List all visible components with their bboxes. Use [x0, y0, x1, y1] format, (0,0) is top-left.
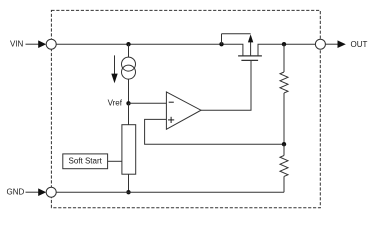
op-amp plus sign: [168, 119, 174, 121]
pin OUT terminal: [315, 39, 325, 49]
resistor R1: [280, 72, 288, 93]
wire GND lead: [26, 191, 40, 193]
wire Soft Start to reference resistor: [108, 160, 122, 162]
wire Vref to inverting input: [129, 102, 167, 104]
node reference-ground junction: [126, 190, 130, 194]
op-amp minus sign: [169, 101, 174, 103]
node Vref: [126, 101, 130, 105]
wire VIN lead: [26, 43, 40, 45]
svg-text:OUT: OUT: [351, 40, 368, 49]
wire feedback node to R2: [283, 144, 285, 155]
wire body-tie loop: [221, 34, 223, 45]
transistor Q1 body arrow: [250, 42, 252, 56]
node source-branch junction: [126, 42, 130, 46]
wire bias branch from VIN rail: [128, 44, 130, 57]
svg-text:GND: GND: [7, 187, 25, 196]
block Soft Start: [63, 154, 108, 169]
arrow into VIN pin: [38, 40, 46, 48]
wire R2 to ground rail: [283, 176, 285, 192]
resistor R3 (reference leg, box style): [122, 125, 136, 175]
wire Vref node to reference resistor: [128, 103, 130, 124]
wire R1 to feedback node: [283, 93, 285, 144]
arrow current direction: [114, 55, 116, 75]
wire ground rail: [56, 191, 284, 193]
arrow into GND pin: [38, 188, 46, 196]
pin GND terminal: [46, 187, 56, 197]
node divider-top junction: [282, 42, 286, 46]
node body-tie junction: [219, 42, 223, 46]
arrow out of OUT pin: [338, 40, 346, 48]
node feedback junction: [282, 142, 286, 146]
resistor R2: [280, 156, 288, 177]
svg-text:VIN: VIN: [10, 40, 24, 49]
op-amp U1 error amplifier: [166, 92, 201, 129]
wire pass transistor drain to OUT rail: [258, 44, 315, 56]
wire feedback to non-inverting input: [145, 119, 284, 144]
wire VIN rail to pass transistor source: [56, 44, 243, 56]
transistor Q1 gate bar: [241, 59, 258, 61]
IC boundary dashed box: [51, 10, 320, 207]
transistor Q1 channel bar: [238, 55, 262, 57]
wire OUT rail to divider: [283, 44, 285, 72]
svg-text:Soft Start: Soft Start: [69, 157, 103, 166]
current source I1: [122, 57, 136, 71]
pin VIN terminal: [46, 39, 56, 49]
wire gate lead to error amp output: [201, 60, 251, 110]
wire reference resistor to ground rail: [128, 174, 130, 192]
svg-text:Vref: Vref: [108, 98, 123, 107]
wire OUT lead: [325, 43, 338, 45]
wire current source to Vref node: [128, 79, 130, 103]
